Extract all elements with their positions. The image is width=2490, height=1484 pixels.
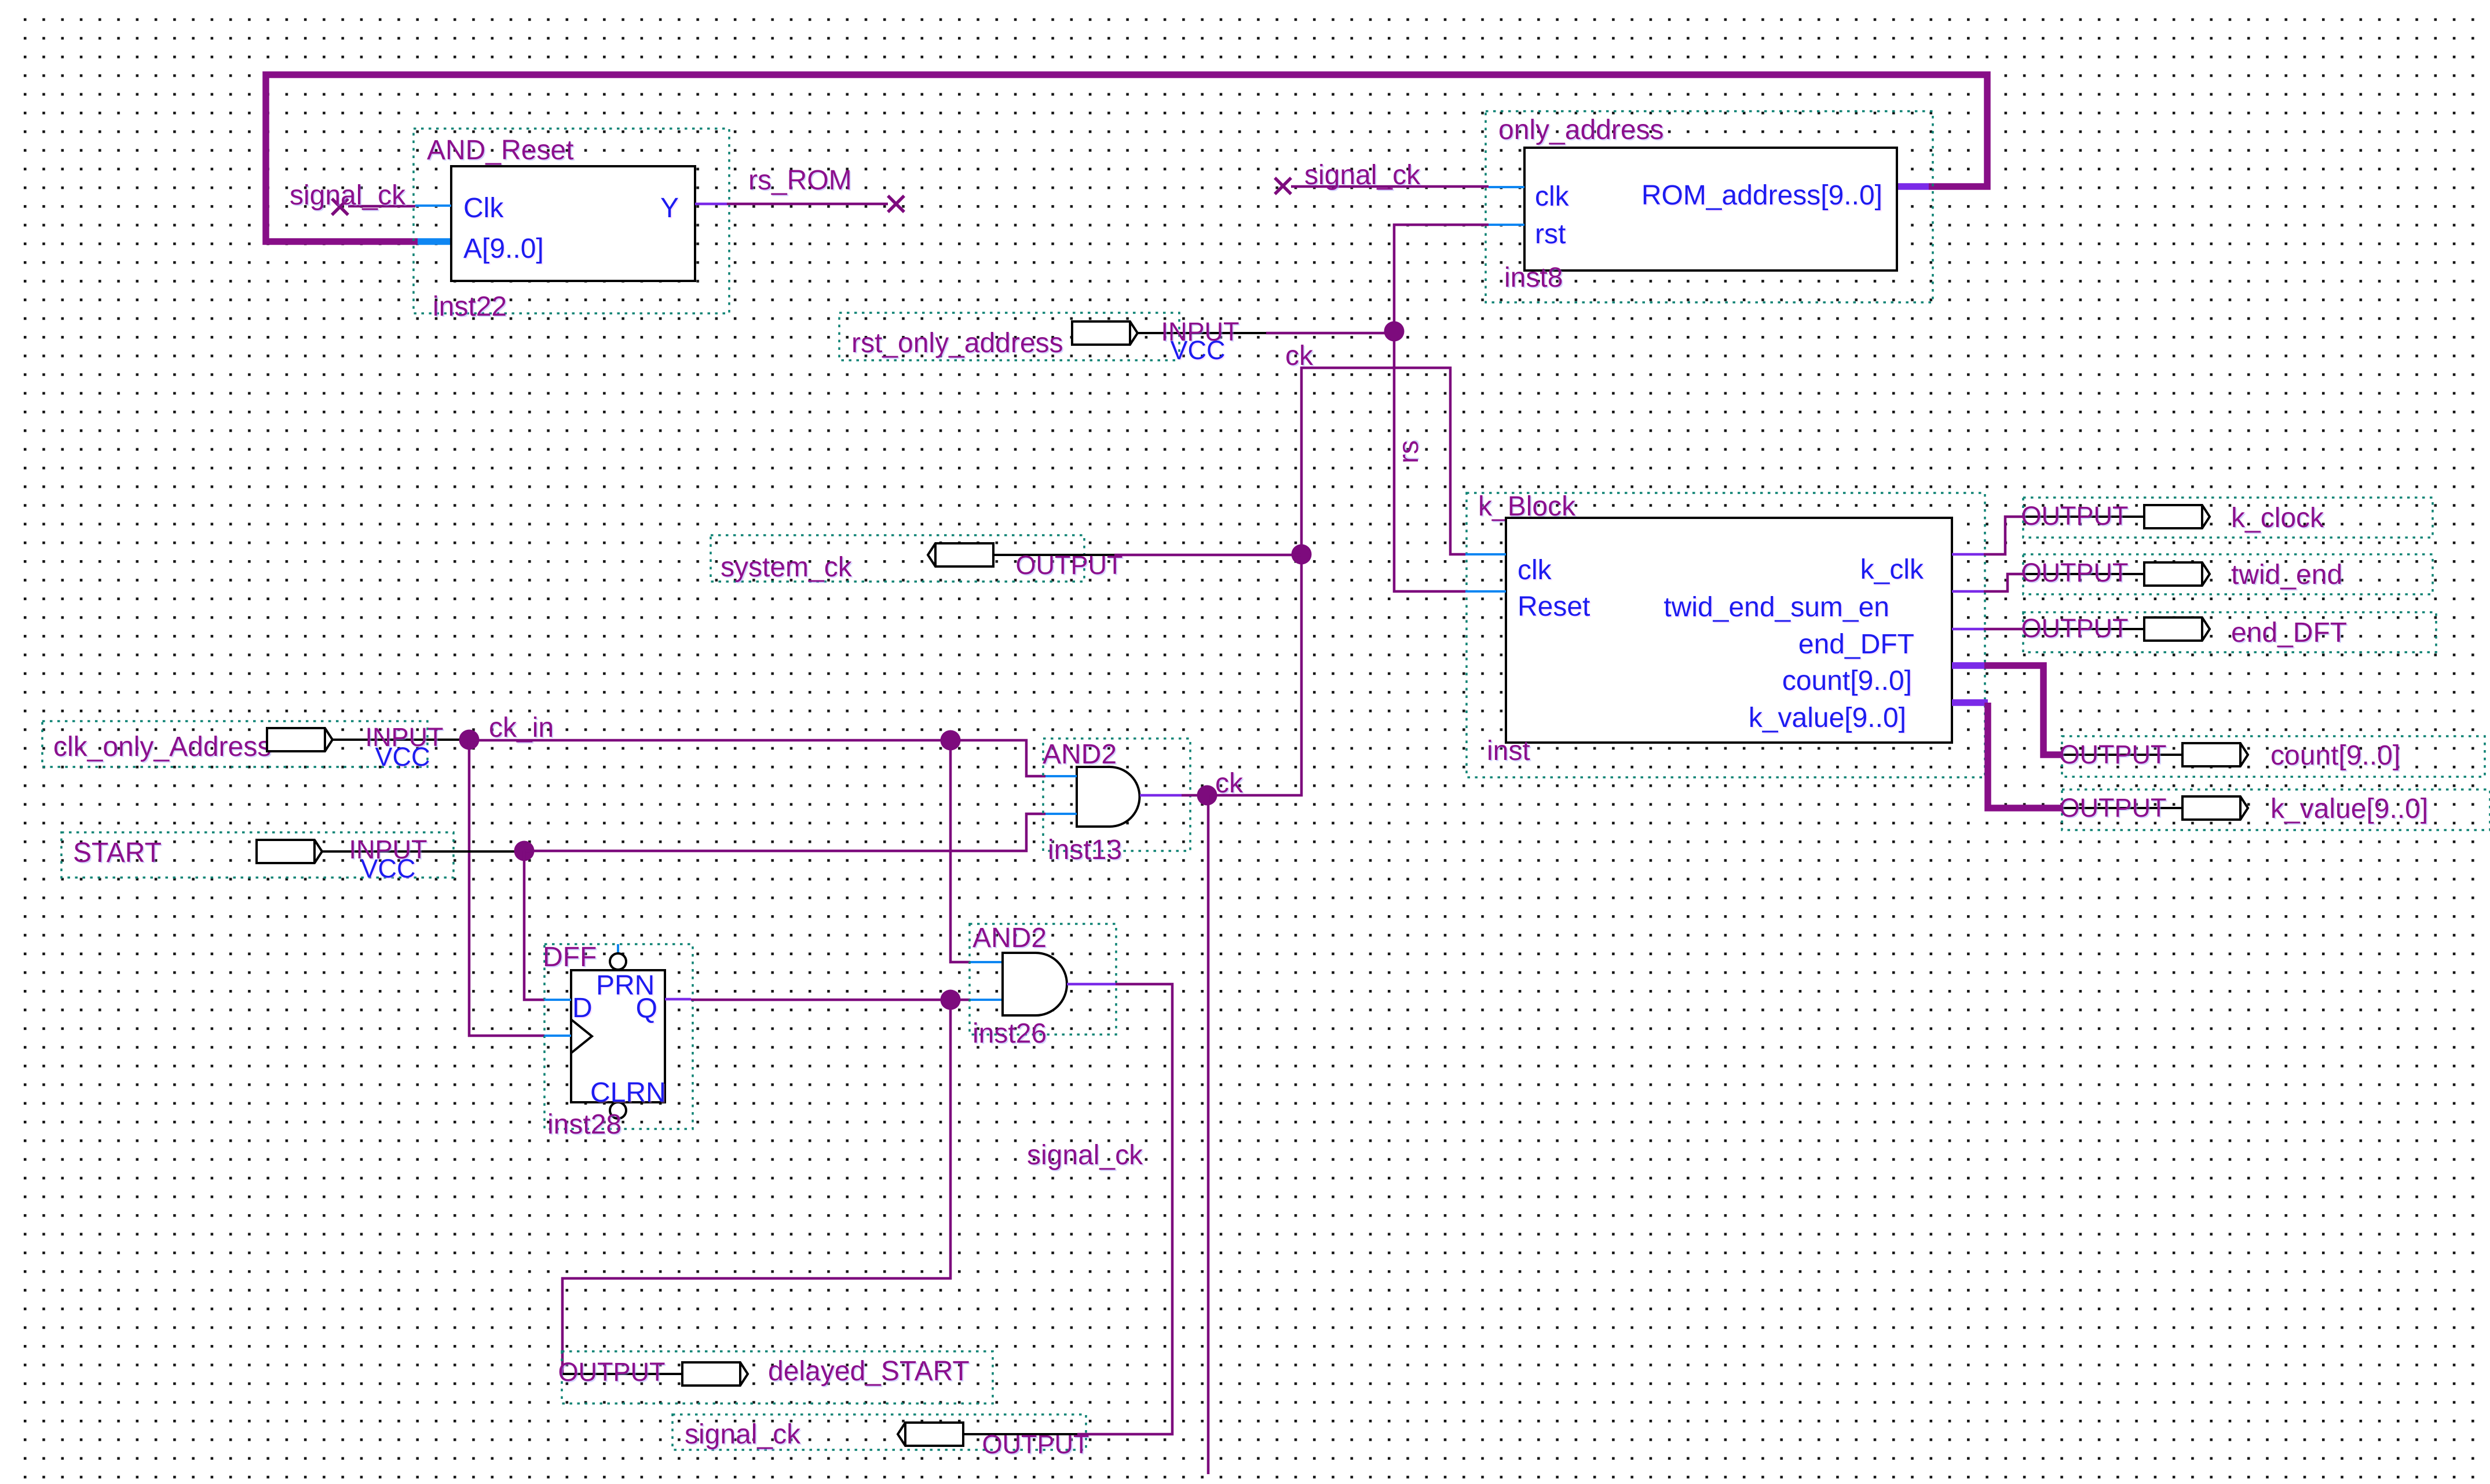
svg-text:OUTPUT: OUTPUT <box>558 1357 666 1387</box>
pin stub clock of DFF <box>544 1035 571 1037</box>
wire k_clk to OUTPUT k_clock <box>1984 517 2023 554</box>
svg-text:twid_end_sum_en: twid_end_sum_en <box>1663 592 1889 623</box>
svg-text:end_DFT: end_DFT <box>2231 617 2347 648</box>
svg-text:OUTPUT: OUTPUT <box>2060 740 2167 769</box>
svg-text:inst28: inst28 <box>547 1109 621 1140</box>
pin stub output of AND2 inst26 <box>1067 983 1116 986</box>
svg-text:DFF: DFF <box>543 942 597 973</box>
svg-text:OUTPUT: OUTPUT <box>2021 613 2129 643</box>
block AND_Reset inst22 <box>414 129 729 322</box>
svg-text:CLRN: CLRN <box>590 1077 666 1108</box>
svg-text:OUTPUT: OUTPUT <box>2021 501 2129 531</box>
net label ck at inst13 <box>1215 768 1244 799</box>
junction START net <box>514 841 535 861</box>
svg-text:system_ck: system_ck <box>721 552 853 583</box>
pin stub D of DFF <box>544 999 571 1001</box>
pin stub clk of k_Block <box>1465 553 1506 555</box>
input connector clk_only_Address <box>42 721 469 772</box>
pin stub top input of AND2 inst26 <box>970 961 1003 963</box>
wire ck_in across to AND2 inst13 top input <box>469 740 1045 776</box>
svg-text:OUTPUT: OUTPUT <box>2060 793 2167 823</box>
output connector delayed_START <box>558 1351 993 1403</box>
bus stub count[9..0] out <box>1952 662 1984 669</box>
svg-text:Clk: Clk <box>463 193 504 224</box>
output connector signal_ck <box>672 1414 1089 1459</box>
svg-text:signal_ck: signal_ck <box>1027 1140 1143 1171</box>
bus stub A[9..0] into AND_Reset <box>418 238 451 245</box>
junction rs net <box>1384 321 1405 342</box>
dff DFF inst28 <box>543 942 693 1140</box>
svg-text:ck: ck <box>1215 768 1244 799</box>
pin stub bottom input of AND2 inst13 <box>1045 813 1077 815</box>
junction ck at inst13 output <box>1197 785 1217 806</box>
svg-text:inst13: inst13 <box>1048 835 1122 865</box>
wire end_DFT to OUTPUT end_DFT <box>1984 628 2023 631</box>
output connector k_clock <box>2021 498 2433 538</box>
junction ck_in at clk_only_Address <box>459 730 480 750</box>
bus ROM_address[9..0] loop wire <box>266 75 1987 242</box>
bus k_value[9..0] to OUTPUT k_value <box>1988 703 2062 808</box>
dangling X end signal_ck mid <box>1275 178 1291 194</box>
wire signal_ck into AND_Reset Clk <box>348 205 415 208</box>
svg-text:OUTPUT: OUTPUT <box>1016 550 1123 580</box>
svg-text:k_value[9..0]: k_value[9..0] <box>1749 703 1906 733</box>
dangling X end signal_ck at AND_Reset <box>332 199 348 215</box>
svg-text:inst8: inst8 <box>1504 262 1563 293</box>
bus count[9..0] to OUTPUT count <box>1984 666 2062 755</box>
svg-text:AND_Reset: AND_Reset <box>427 135 573 166</box>
wire ck net from AND2 inst13 up and over to k_Block clk <box>1207 368 1465 795</box>
wire START across to AND2 inst13 bottom input <box>524 814 1045 851</box>
wire ck dangling vertical to bottom <box>1207 795 1210 1474</box>
svg-text:AND2: AND2 <box>972 923 1047 953</box>
svg-text:inst22: inst22 <box>433 291 507 322</box>
svg-text:signal_ck: signal_ck <box>685 1419 801 1450</box>
wire rs net from rst pin down to k_Block Reset <box>1394 225 1489 591</box>
output connector count[9..0] <box>2060 736 2485 777</box>
svg-text:signal_ck: signal_ck <box>1304 160 1421 191</box>
wire ck_in branch down to DFF clock <box>469 740 544 1036</box>
pin stub end_DFT out <box>1952 628 1984 631</box>
svg-text:rst_only_address: rst_only_address <box>851 328 1063 359</box>
svg-text:twid_end: twid_end <box>2231 560 2342 590</box>
pin stub Q of DFF <box>665 998 691 1001</box>
wire twid_end_sum_en to OUTPUT twid_end <box>1984 574 2023 591</box>
svg-text:VCC: VCC <box>360 854 415 883</box>
output connector system_ck <box>711 535 1123 583</box>
svg-text:clk_only_Address: clk_only_Address <box>53 732 271 762</box>
svg-text:k_value[9..0]: k_value[9..0] <box>2270 794 2428 824</box>
svg-text:clk: clk <box>1518 555 1552 586</box>
svg-text:k_clk: k_clk <box>1860 554 1924 585</box>
net label rs_ROM <box>748 165 852 196</box>
bus stub k_value[9..0] out <box>1952 699 1988 706</box>
net label ck top <box>1285 341 1314 371</box>
net label signal_ck at AND_Reset <box>290 180 406 211</box>
bus stub ROM_address[9..0] out of only_address <box>1898 183 1929 190</box>
junction ck net at system_ck tap <box>1292 544 1312 565</box>
svg-text:Reset: Reset <box>1518 591 1590 622</box>
net label signal_ck mid <box>1304 160 1421 191</box>
pin stub k_clk out <box>1952 553 1984 556</box>
pin stub Clk of AND_Reset <box>415 204 451 207</box>
output connector twid_end <box>2021 554 2433 594</box>
wire inst13 output to ck junction <box>1182 794 1207 797</box>
wire signal_ck from inst26 down to OUTPUT signal_ck <box>1077 984 1172 1434</box>
wire ck_in branch down to AND2 inst26 top input <box>950 740 970 962</box>
pin stub clk of only_address <box>1489 186 1524 188</box>
wire rs_ROM from Y <box>727 203 888 206</box>
wire Q to AND2 inst26 bottom input <box>691 999 970 1001</box>
pin stub rst of only_address <box>1489 224 1524 226</box>
svg-text:inst26: inst26 <box>972 1018 1047 1049</box>
and-gate AND2 inst26 <box>970 923 1116 1049</box>
svg-text:VCC: VCC <box>375 742 430 772</box>
svg-text:OUTPUT: OUTPUT <box>2021 558 2129 587</box>
svg-text:count[9..0]: count[9..0] <box>1782 666 1912 696</box>
pin stub output of AND2 inst13 <box>1140 794 1182 797</box>
wire signal_ck into only_address clk <box>1291 185 1489 188</box>
junction ck_in branch to AND2 inst26 <box>941 730 961 751</box>
junction delayed_START tap at inst26 input <box>941 990 961 1010</box>
wire rst_only_address to rs junction <box>1266 332 1394 335</box>
svg-text:k_clock: k_clock <box>2231 503 2324 533</box>
svg-text:rs: rs <box>1394 440 1424 463</box>
pin stub top input of AND2 inst13 <box>1045 775 1077 777</box>
svg-text:ROM_address[9..0]: ROM_address[9..0] <box>1641 180 1882 211</box>
svg-text:VCC: VCC <box>1170 335 1225 365</box>
svg-text:clk: clk <box>1535 181 1570 212</box>
svg-text:A[9..0]: A[9..0] <box>463 233 544 264</box>
svg-text:OUTPUT: OUTPUT <box>982 1430 1089 1459</box>
svg-text:ck: ck <box>1285 341 1314 371</box>
pin stub bottom input of AND2 inst26 <box>970 999 1003 1001</box>
block only_address inst8 <box>1486 111 1933 302</box>
svg-text:rst: rst <box>1535 219 1566 250</box>
wire system_ck to ck junction <box>1114 554 1301 557</box>
svg-text:inst: inst <box>1487 736 1530 766</box>
wire START branch down to DFF D input <box>524 851 544 1000</box>
svg-text:count[9..0]: count[9..0] <box>2270 740 2400 771</box>
dangling X end rs_ROM <box>888 196 904 212</box>
svg-text:signal_ck: signal_ck <box>290 180 406 211</box>
svg-text:START: START <box>73 838 162 868</box>
output connector end_DFT <box>2021 612 2437 652</box>
output connector k_value[9..0] <box>2060 789 2490 830</box>
pin stub twid_end_sum_en out <box>1952 590 1984 593</box>
svg-text:delayed_START: delayed_START <box>768 1356 970 1387</box>
net label signal_ck lower <box>1027 1140 1143 1171</box>
svg-text:rs_ROM: rs_ROM <box>748 165 852 196</box>
svg-text:Y: Y <box>660 193 679 224</box>
and-gate AND2 inst13 <box>1043 739 1190 865</box>
pin stub Reset of k_Block <box>1465 590 1506 593</box>
input connector START <box>61 832 524 883</box>
net label rs rotated <box>1394 440 1424 463</box>
input connector rst_only_address <box>839 313 1266 365</box>
svg-text:end_DFT: end_DFT <box>1798 629 1914 660</box>
svg-text:Q: Q <box>636 993 657 1024</box>
svg-text:AND2: AND2 <box>1043 739 1117 770</box>
net label ck_in <box>489 712 554 743</box>
block k_Block inst <box>1467 491 1985 777</box>
svg-text:D: D <box>572 993 593 1024</box>
pin stub Y of AND_Reset <box>695 203 727 206</box>
svg-text:only_address: only_address <box>1498 115 1664 145</box>
wire delayed_START from Q junction down to OUTPUT delayed_START <box>562 1000 950 1374</box>
svg-text:ck_in: ck_in <box>489 712 554 743</box>
